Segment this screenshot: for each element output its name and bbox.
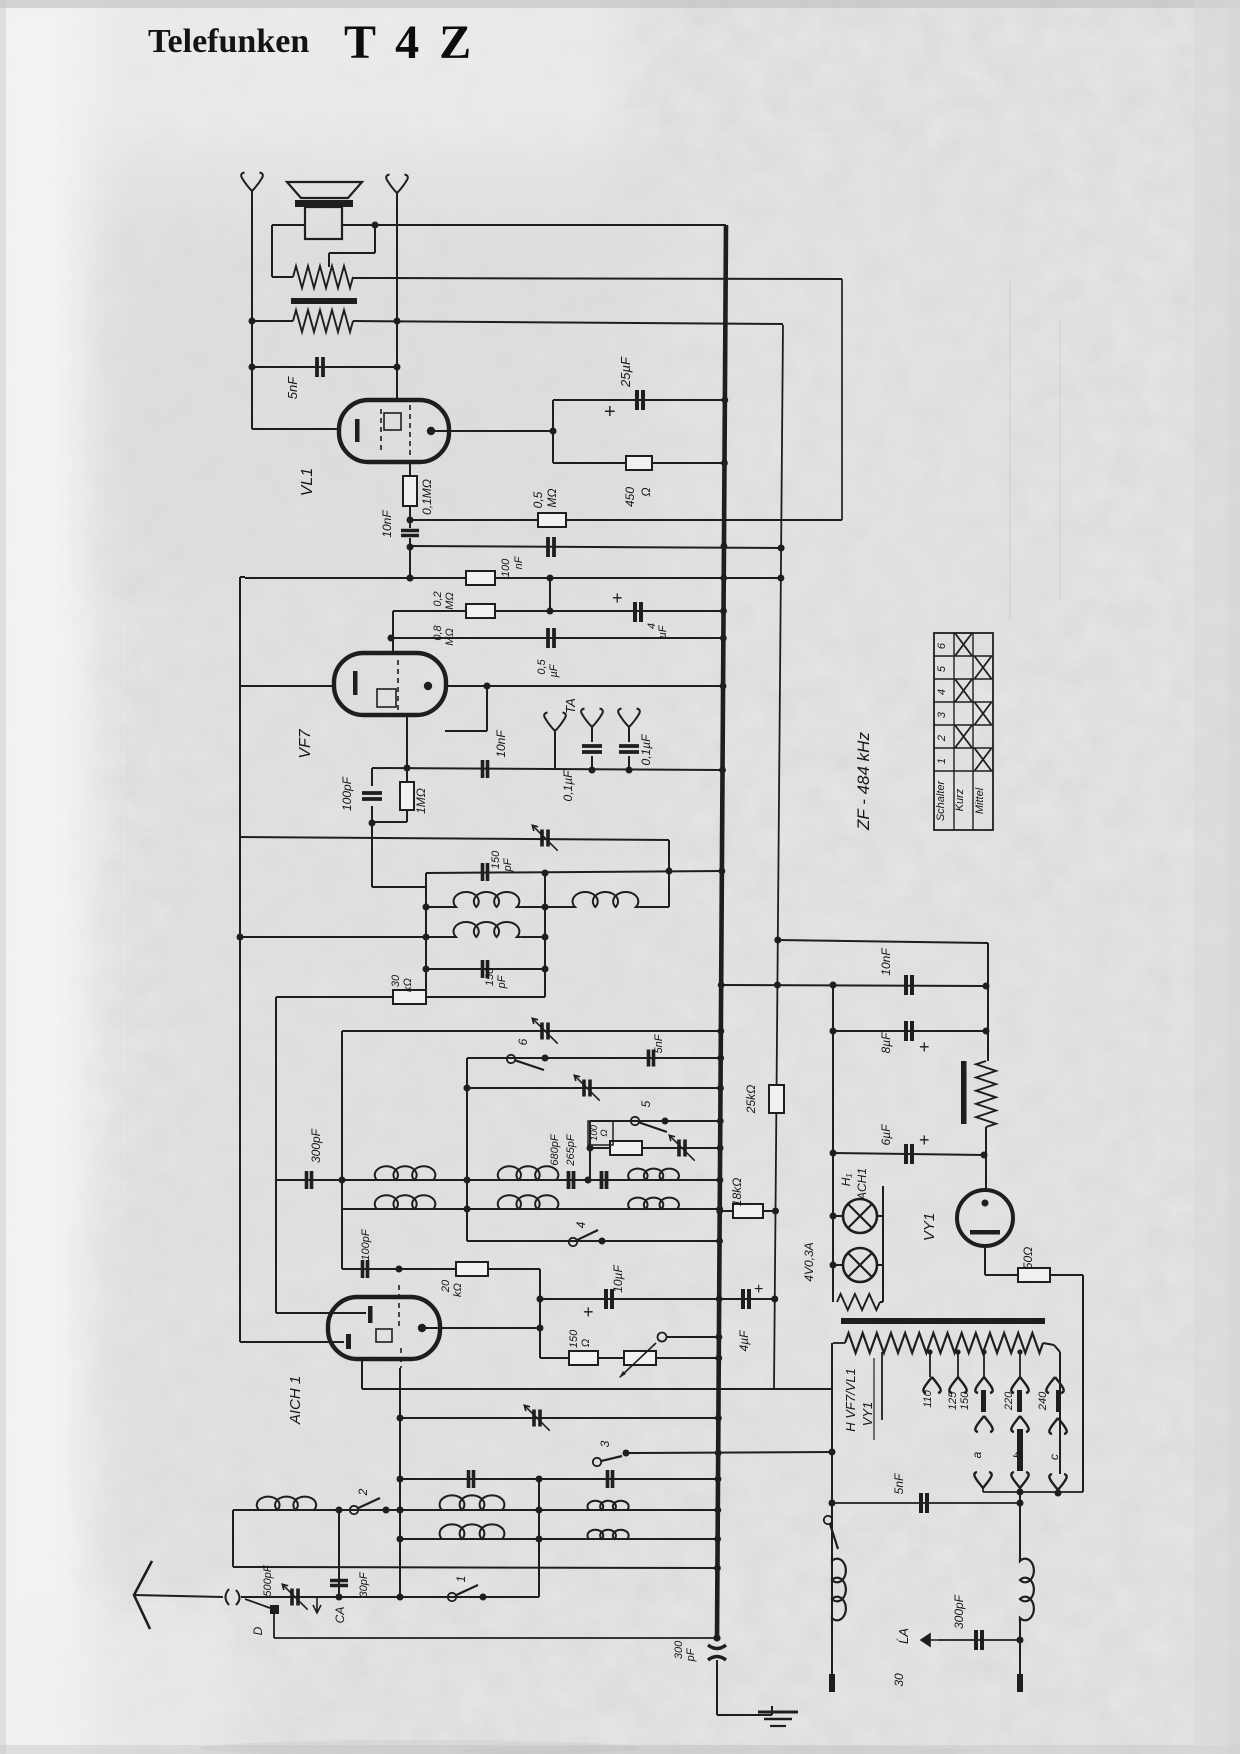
wire trimmer row 837 [240,837,669,840]
coil IF1 tertiary [240,936,452,938]
wire grid row 578 [245,577,781,579]
wire VY1 to 50ohm [984,1246,986,1275]
svg-text:18kΩ: 18kΩ [730,1178,744,1206]
wire row 1031 trimmer [342,1030,721,1032]
svg-text:kΩ: kΩ [402,978,414,992]
svg-text:5nF: 5nF [653,1033,665,1053]
coil osc C1 [626,1169,681,1180]
resistor 0,1MΩ grid leak [409,462,411,476]
switch l5 [631,1117,639,1125]
svg-text:Schalter: Schalter [935,779,947,821]
wire row 638 capacitor 0,5µF [391,637,723,639]
svg-text:20: 20 [440,1279,452,1293]
svg-text:30: 30 [390,974,402,987]
wire grid top corner [240,576,245,578]
wire row 1180 oscillator coils [276,1179,720,1181]
wire heater top right [778,940,988,943]
svg-text:0,8: 0,8 [432,624,444,640]
anode VF7 [424,682,432,690]
wire 450 ohm row [553,462,724,464]
wire grid2 vertical 400 [399,1368,401,1597]
capacitor 5nF [252,366,397,368]
trimmer 500pF [290,1589,294,1606]
svg-text:10µF: 10µF [611,1265,625,1293]
wire speaker loop top [272,224,305,226]
wire row 1269 grid [342,1268,540,1270]
coil osc C2 [626,1198,681,1209]
selector contacts lower [974,1472,991,1488]
svg-text:4µF: 4µF [737,1330,751,1352]
connector TA fork1 [544,713,566,739]
resistor 100Ω [610,1141,642,1155]
wire grid drop from plug [396,198,398,402]
wire row 1638 to bus bottom [274,1637,717,1639]
svg-text:VY1: VY1 [921,1213,938,1241]
capacitor 10nF VF7 [481,760,485,778]
wire corner 540 [539,1269,541,1358]
wire row 873 150pF [426,871,722,873]
resistor lamp shunt [837,1294,880,1310]
svg-text:1: 1 [454,1576,468,1583]
wire row 969 150pF [426,968,545,970]
svg-text:H VF7/VL1: H VF7/VL1 [843,1368,858,1432]
svg-text:Ω: Ω [580,1339,592,1347]
svg-text:150: 150 [959,1391,971,1410]
switch l3 [593,1458,601,1466]
wire right drop 988 [987,943,989,1061]
svg-text:5: 5 [936,665,948,672]
capacitor 4µF right [741,1289,745,1309]
left feedback vertical [239,577,241,1342]
svg-text:100: 100 [500,558,512,577]
svg-text:100pF: 100pF [360,1228,372,1260]
wire 50ohm drop [1082,1275,1084,1492]
wire heater row 1389 [362,1388,832,1390]
coil band B2 [438,1524,506,1539]
svg-text:T 4 Z: T 4 Z [344,16,475,69]
antenna jack [226,1589,230,1605]
wire row 985 10nF [721,985,986,986]
capacitor 25µF electrolytic [635,390,639,410]
switch l1 [448,1593,456,1601]
trimmer row1148 [677,1140,681,1157]
svg-text:VY1: VY1 [860,1402,875,1427]
svg-text:Ω: Ω [639,487,653,496]
svg-text:0,1MΩ: 0,1MΩ [420,479,434,515]
wire row 1453 switch l3 [626,1452,832,1453]
capacitor 100pF AICH1 [361,1260,365,1278]
resistor 1MΩ grid leak VF7 [406,714,408,768]
connector plug right [386,175,408,201]
connector TA fork2 [581,709,603,735]
wire second vertical rail [774,325,783,1389]
resistor 20kΩ [456,1262,488,1276]
wire vertical 550 [549,578,551,611]
svg-text:680pF: 680pF [549,1133,561,1165]
svg-text:30pF: 30pF [358,1571,370,1597]
wire VF7 g2 drop [392,611,394,653]
svg-text:b: b [1011,1451,1025,1458]
wire selector bottom [983,1491,1083,1493]
trimmer capacitor row 837 [540,830,544,847]
svg-text:Kurz: Kurz [954,788,966,811]
wire secondary to right rail [353,321,783,324]
wire vertical 590 [589,1121,591,1180]
wire VF7 anode row [446,685,723,687]
capacitor 5nF osc [647,1050,651,1067]
wire corner to coil2 [668,840,670,907]
svg-text:AICH 1: AICH 1 [287,1376,304,1425]
svg-text:50Ω: 50Ω [1021,1247,1035,1269]
wire row 1640 LA [938,1639,1020,1641]
capacitor 8µF [904,1021,908,1041]
capacitor 0,1µF b [628,732,630,742]
svg-text:5nF: 5nF [285,376,300,399]
svg-text:pF: pF [496,974,508,989]
switch l6 [507,1055,515,1063]
svg-text:150: 150 [484,967,496,986]
resistor 450Ω [626,456,652,470]
wire vertical 545 [544,873,546,997]
svg-text:µF: µF [548,663,560,677]
terminal D below jack [270,1605,279,1614]
antenna [134,1561,152,1629]
wire long row 1567 [233,1567,717,1568]
wire primary row to far right [353,278,842,279]
svg-text:6: 6 [516,1038,530,1045]
terminal bar left [831,1622,833,1674]
svg-text:0,2: 0,2 [432,591,444,606]
svg-text:3: 3 [598,1440,612,1447]
resistor 25kΩ [769,1085,784,1113]
capacitor 10nF [401,529,419,533]
capacitor 10µF [604,1289,608,1309]
svg-text:25µF: 25µF [618,356,633,388]
svg-text:nF: nF [513,555,525,569]
svg-text:220: 220 [1003,1391,1015,1411]
svg-text:H₁: H₁ [839,1174,853,1187]
svg-text:450: 450 [623,487,637,507]
wire antenna row 1597 [241,1596,539,1598]
tube VF7 [334,653,446,715]
terminal circle [658,1333,667,1342]
svg-text:ACH1: ACH1 [855,1168,869,1201]
wire to ground [716,1660,718,1715]
coil osc A2 [373,1195,437,1209]
svg-text:6µF: 6µF [879,1124,893,1146]
resistor 18kΩ [733,1204,763,1218]
svg-text:8µF: 8µF [879,1032,893,1054]
svg-text:6: 6 [936,642,948,649]
wire row 1479 caps [400,1478,718,1480]
capacitor 100pF grid [362,791,382,795]
svg-text:MΩ: MΩ [444,628,456,646]
svg-text:a: a [970,1451,984,1458]
capacitor 5nF mains [919,1493,923,1513]
capacitor 30pF [338,1510,340,1597]
svg-text:+: + [754,1281,763,1298]
resistor secondary winding [293,310,353,332]
wire 1020 vertical [1019,1492,1021,1557]
variable resistor with arrow [624,1351,656,1365]
resistor 0,2MΩ [466,604,495,618]
wire g1 row [276,1312,366,1314]
svg-text:5nF: 5nF [892,1473,906,1494]
arrow LA [921,1634,938,1646]
wire grid row 768 [372,768,723,770]
svg-text:+: + [583,1302,594,1322]
resistor 0,5MΩ [538,513,566,527]
svg-text:TA: TA [563,698,578,714]
connector plug left [241,173,263,199]
selector plug b bar [1017,1429,1023,1471]
selector contacts upper [923,1377,940,1393]
heater transformer core [841,1318,1045,1324]
wire screen row 611 [393,610,724,612]
svg-text:D: D [251,1626,265,1635]
wire left corner 233 [232,1510,234,1567]
svg-text:Mittel: Mittel [974,787,986,814]
switch table Schalter [934,633,993,830]
svg-text:10nF: 10nF [494,730,508,758]
tap 110 [881,1352,883,1420]
wire 25uF row [553,399,725,401]
left vertical 342 [341,1031,343,1269]
tube AICH1 [328,1297,440,1359]
svg-text:pF: pF [502,857,514,872]
anode VL1 [427,427,435,435]
wire cathode row [240,1341,344,1343]
svg-text:kΩ: kΩ [452,1283,464,1297]
capacitor 4µF row 611 [633,602,637,622]
wire row 1211 18k [720,1210,776,1212]
svg-text:150: 150 [490,850,502,869]
svg-text:ĹA: ĹA [896,1628,911,1644]
svg-text:100pF: 100pF [340,776,354,811]
svg-text:500pF: 500pF [262,1564,274,1596]
capacitor 300pF [305,1171,309,1189]
lamp scale [843,1248,877,1282]
svg-text:MΩ: MΩ [444,592,456,610]
svg-text:30: 30 [892,1673,906,1687]
svg-text:4V0,3A: 4V0,3A [802,1242,816,1281]
left vertical 276 [275,997,277,1313]
coil ant A [255,1497,318,1510]
resistor 100nF row 578 [466,571,495,585]
arrow CA [313,1597,321,1613]
wire anode row AICH1 [422,1327,540,1329]
wire right vertical x=842 [841,279,843,520]
svg-text:300: 300 [673,1640,685,1659]
svg-text:+: + [604,401,616,423]
capacitor 265pF [600,1171,604,1189]
svg-text:25kΩ: 25kΩ [744,1085,758,1114]
barretter resistor [961,1061,967,1124]
svg-text:0,1µF: 0,1µF [561,770,575,802]
resistor 30kΩ [276,996,545,998]
capacitor 0,1µF a [591,732,593,742]
svg-text:0,5: 0,5 [531,491,545,508]
wire lamps left vertical [832,984,834,1302]
svg-text:125: 125 [947,1391,959,1410]
connector TA fork3 [618,709,640,735]
wire left drop to VL1 cathode [251,196,253,429]
wire vertical 467 [466,1058,468,1241]
winding right corner [1043,1343,1054,1345]
resistor 50Ω [985,1274,1018,1276]
wire row 1088 trimmer [467,1087,721,1089]
svg-text:Telefunken: Telefunken [148,23,309,60]
svg-text:5: 5 [639,1100,653,1107]
svg-text:1MΩ: 1MΩ [414,788,428,814]
svg-text:MΩ: MΩ [545,488,559,507]
wire row 1358 [540,1357,719,1359]
svg-text:300pF: 300pF [309,1128,323,1163]
wire 0,5M row [410,519,842,521]
svg-text:1: 1 [936,758,948,764]
switch mains [824,1516,832,1524]
svg-text:300pF: 300pF [952,1594,966,1629]
coil IF1 primary [426,906,452,908]
svg-text:0,1µF: 0,1µF [639,734,653,766]
capacitor 300pF bus bottom [708,1645,726,1649]
wire circle to bus [667,1336,719,1338]
svg-text:pF: pF [685,1647,697,1662]
tube VL1 [339,400,449,462]
wire screen L [486,686,488,731]
wire row 1031 8uF [833,1030,986,1032]
wire VL1 cathode [252,428,339,430]
svg-text:240: 240 [1037,1391,1049,1411]
wire row 1453 right [829,1449,836,1456]
transformer core bar [291,298,357,304]
svg-text:4: 4 [574,1221,588,1228]
coil osc B2 [496,1195,560,1209]
capacitor 680pF [567,1171,571,1189]
svg-text:c: c [1047,1454,1061,1460]
svg-text:+: + [919,1130,930,1150]
resistor 150Ω [569,1351,598,1365]
wire row 546 with capacitor [410,546,781,548]
svg-text:110: 110 [922,1389,934,1407]
wire lamps right vertical [882,1186,884,1302]
ground [771,1706,773,1715]
svg-text:0,5: 0,5 [536,658,548,674]
coil osc B1 [496,1166,560,1180]
coil choke left [832,1557,846,1622]
svg-text:µF: µF [657,624,669,638]
loudspeaker LS [287,182,362,198]
wire pot tap step [374,225,376,253]
selector contacts middle [975,1416,992,1432]
svg-text:Ω: Ω [599,1129,610,1136]
capacitor 6µF [904,1144,908,1164]
wire row 1510 [233,1509,718,1511]
wire secondary left [252,320,293,322]
capacitor 300pF LA [974,1630,978,1650]
svg-text:VF7: VF7 [297,728,314,758]
wire row 1241 switch l4 [467,1240,720,1242]
lamp H1 [843,1199,877,1233]
coil band B [438,1495,506,1510]
tap drops [929,1350,931,1377]
coil band C [585,1501,631,1510]
terminal bar right [1019,1622,1021,1674]
wire row 1155 6uF [833,1153,984,1155]
svg-text:3: 3 [936,711,948,718]
coil osc A1 [373,1166,437,1180]
svg-text:265pF: 265pF [565,1133,577,1166]
wire row 1209 coils [342,1208,720,1210]
winding left corner [833,1342,845,1344]
svg-text:10nF: 10nF [879,948,893,976]
svg-text:+: + [612,588,623,608]
switch l2 [350,1506,358,1514]
svg-text:+: + [919,1037,930,1057]
resistor output pot [293,266,353,288]
svg-text:2: 2 [936,735,948,742]
svg-text:VL1: VL1 [299,468,316,496]
heater winding [845,1333,1043,1353]
wire main HT bus [717,225,726,1638]
wire row 1121 switch l5 [590,1120,720,1122]
switch l4 [569,1238,577,1246]
coil band C2 [585,1530,631,1539]
svg-text:4: 4 [936,689,948,695]
svg-text:CA: CA [333,1607,347,1624]
svg-text:150: 150 [568,1329,580,1348]
wire VF7 cathode row [240,685,334,687]
wire 5nF row 1503 [832,1502,1020,1504]
wire 426 vertical [425,873,427,991]
wire 372 down [371,823,373,887]
svg-text:10nF: 10nF [380,510,394,538]
coil IF1 secondary [545,906,571,908]
wire row 1299 [540,1298,775,1300]
wire anode junction vertical [552,400,554,463]
wire row 1418 trimmer [400,1417,718,1419]
svg-text:2: 2 [356,1488,370,1496]
wire vertical 539 [538,1479,540,1597]
wire row 1539 [400,1538,718,1540]
selector pins [981,1390,986,1412]
tube VY1 [957,1190,1013,1246]
coil choke right [1020,1557,1034,1622]
wire row 1148 100ohm [590,1147,720,1149]
svg-text:ZF - 484 kHz: ZF - 484 kHz [854,732,873,831]
wire row 1058 switch l6 [467,1057,721,1059]
anode AICH1 [418,1324,426,1332]
